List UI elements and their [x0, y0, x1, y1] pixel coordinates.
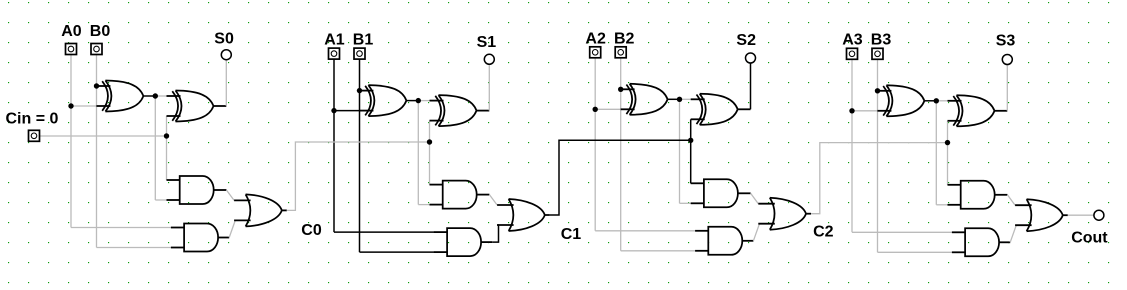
node XOR3a output junction: [934, 98, 939, 103]
wire AND0a out diagonal: [226, 190, 234, 200]
svg-text:S0: S0: [214, 30, 234, 47]
wire A1 vertical: [333, 59, 335, 232]
wire B3 to AND input: [878, 251, 953, 253]
wire A3 to AND input: [852, 231, 952, 233]
and gate U7: [430, 181, 477, 209]
wire A1 to XOR input: [334, 110, 359, 112]
node B1 junction: [357, 88, 362, 93]
wire A0 to AND input: [71, 227, 171, 229]
input pin A1: [329, 48, 340, 59]
wire carry to XOR0b input: [166, 116, 168, 136]
svg-text:A0: A0: [61, 23, 82, 40]
wire to AND1a lower input: [418, 204, 429, 206]
or gate carry block 3: [1015, 199, 1063, 231]
node XOR2a output junction: [677, 97, 682, 102]
svg-text:S3: S3: [996, 33, 1016, 50]
wire B3 vertical: [877, 59, 879, 252]
wire carry to AND1a upper input: [429, 184, 431, 186]
and gate U4: [171, 224, 218, 252]
or gate carry block 0: [234, 194, 282, 226]
wire AND0a output stub: [214, 189, 227, 191]
wire AND3b output stub: [999, 241, 1010, 243]
node B3 junction: [875, 88, 880, 93]
input pin B1: [354, 48, 365, 59]
wire XOR2a out down: [679, 99, 681, 203]
wire XOR1a out down: [417, 101, 419, 205]
wire A2 vertical: [594, 58, 596, 231]
wire to XOR2b lower input: [690, 118, 692, 120]
node carry junction block 0: [164, 133, 169, 138]
and gate U16: [952, 228, 999, 256]
wire XOR3b output stub: [995, 110, 1008, 112]
wire to XOR1b lower input: [429, 120, 431, 122]
svg-text:A3: A3: [842, 31, 863, 48]
wire XOR0b output stub: [214, 105, 227, 107]
output pin S2: [746, 53, 756, 63]
wire carry to AND0a upper input: [166, 179, 168, 181]
wire AND3a out diagonal: [1007, 195, 1015, 205]
svg-text:B1: B1: [353, 31, 374, 48]
wire C0 output stub: [282, 209, 287, 211]
wire carry down to AND0a input: [166, 136, 168, 180]
wire S2 vertical: [750, 63, 752, 110]
wire AND2b out diagonal: [753, 224, 759, 241]
wire XOR0a out to XOR0b input: [155, 95, 166, 97]
wire C2 output stub: [806, 213, 811, 215]
wire carry to XOR3b input: [947, 121, 949, 143]
wire XOR2b output stub: [738, 108, 751, 110]
wire C2 net: [811, 143, 948, 214]
wire XOR1a output: [406, 100, 418, 102]
wire AND1a output stub: [477, 194, 490, 196]
wire AND2a out diagonal: [751, 193, 759, 203]
svg-text:S2: S2: [736, 32, 756, 49]
xor gate U13 (A3 XOR B3): [877, 85, 924, 116]
node A2 junction: [593, 107, 598, 112]
wire A0 to XOR input: [71, 105, 96, 107]
wire AND0b output stub: [218, 237, 229, 239]
wire AND2a output stub: [738, 192, 751, 194]
wire S3 vertical: [1006, 64, 1008, 111]
and gate U12: [695, 227, 742, 255]
wire XOR3a output: [924, 100, 936, 102]
wire XOR3a out down: [935, 101, 937, 205]
node XOR1a output junction: [416, 98, 421, 103]
wire AND1b output stub: [481, 241, 492, 243]
input pin Cin: [29, 130, 40, 141]
wire AND0b out diagonal: [229, 221, 235, 238]
node XOR0a output junction: [153, 93, 158, 98]
wire Cout: [1068, 214, 1094, 216]
node A0 junction: [68, 103, 73, 108]
node carry junction block 2: [688, 138, 693, 143]
wire XOR0a out down: [154, 96, 156, 200]
xor gate U14 (sum S3): [948, 95, 995, 126]
input pin B2: [615, 47, 626, 58]
wire AND3b out diagonal: [1010, 226, 1016, 243]
input pin B0: [91, 44, 102, 55]
wire C0 net: [287, 142, 430, 210]
svg-text:B3: B3: [871, 31, 892, 48]
and gate U15: [948, 181, 995, 209]
node A3 junction: [849, 108, 854, 113]
wire AND3a output stub: [995, 194, 1008, 196]
wire AND2b output stub: [742, 240, 753, 242]
svg-text:A1: A1: [324, 31, 345, 48]
wire A2 to XOR input: [595, 108, 620, 110]
wire S1 vertical: [488, 64, 490, 111]
output pin Cout: [1094, 210, 1104, 220]
wire to XOR3b lower input: [947, 120, 949, 122]
xor gate U9 (A2 XOR B2): [621, 84, 668, 115]
node carry junction block 1: [427, 139, 432, 144]
wire A0 vertical: [70, 55, 72, 228]
wire carry down to AND2a input: [690, 140, 692, 183]
wire A3 vertical: [851, 59, 853, 232]
svg-text:Cin = 0: Cin = 0: [6, 111, 59, 128]
wire S0 vertical: [225, 60, 227, 107]
wire to XOR0b lower input: [166, 115, 168, 117]
wire A3 to XOR input: [852, 110, 877, 112]
node carry junction block 3: [945, 140, 950, 145]
wire carry to XOR1b input: [429, 121, 431, 142]
output pin S1: [484, 54, 494, 64]
output pin S0: [221, 50, 231, 60]
svg-text:C0: C0: [301, 222, 322, 239]
wire to AND0a lower input: [155, 199, 166, 201]
wire A2 to AND input: [595, 230, 695, 232]
wire AND1b out to OR: [492, 225, 498, 242]
xor gate U1 (A0 XOR B0): [96, 81, 143, 112]
wire XOR1b output stub: [477, 110, 490, 112]
wire B1 vertical: [359, 59, 361, 252]
wire carry to XOR2b input: [690, 119, 692, 140]
output pin S3: [1002, 55, 1012, 65]
wire carry down to AND1a input: [429, 142, 431, 185]
wire to AND3a lower input: [936, 204, 947, 206]
wire XOR2a output: [668, 98, 680, 100]
svg-text:Cout: Cout: [1071, 230, 1108, 247]
input pin A0: [66, 44, 77, 55]
svg-text:C1: C1: [561, 226, 582, 243]
svg-text:C2: C2: [813, 223, 834, 240]
wire AND1a out diagonal: [489, 195, 497, 205]
wire B2 vertical: [620, 58, 622, 251]
wire to AND2a lower input: [680, 202, 691, 204]
wire C1 net: [550, 140, 691, 215]
or gate carry block 1: [497, 199, 545, 231]
wire B0 vertical: [96, 55, 98, 248]
input pin A3: [847, 48, 858, 59]
wire A1 to AND input: [334, 231, 434, 233]
wire Cin horizontal: [40, 135, 167, 137]
and gate U11: [691, 179, 738, 207]
node B0 junction: [94, 83, 99, 88]
wire B0 to AND input: [97, 247, 172, 249]
svg-text:B2: B2: [614, 31, 635, 48]
wire Cout output stub: [1063, 214, 1068, 216]
xor gate U5 (A1 XOR B1): [359, 85, 406, 116]
svg-text:A2: A2: [585, 31, 606, 48]
xor gate U2 (sum S0): [167, 91, 214, 122]
input pin B3: [872, 48, 883, 59]
wire XOR0a output: [143, 95, 155, 97]
xor gate U6 (sum S1): [430, 95, 477, 126]
svg-text:S1: S1: [477, 34, 497, 51]
wire carry to AND2a upper input: [690, 182, 692, 184]
wire C1 output stub: [545, 214, 550, 216]
wire B2 to AND input: [621, 250, 696, 252]
node A1 junction: [331, 108, 336, 113]
xor gate U10 (sum S2): [691, 94, 738, 125]
wire B1 to AND input: [360, 251, 435, 253]
wire carry down to AND3a input: [947, 143, 949, 185]
or gate carry block 2: [758, 198, 806, 230]
and gate U8: [434, 228, 481, 256]
wire XOR2a out to XOR2b input: [680, 98, 691, 100]
node B2 junction: [618, 87, 623, 92]
input pin A2: [590, 47, 601, 58]
and gate U3: [167, 176, 214, 204]
wire XOR1a out to XOR1b input: [418, 100, 429, 102]
wire XOR3a out to XOR3b input: [936, 100, 947, 102]
svg-text:B0: B0: [90, 23, 111, 40]
wire carry to AND3a upper input: [947, 184, 949, 186]
